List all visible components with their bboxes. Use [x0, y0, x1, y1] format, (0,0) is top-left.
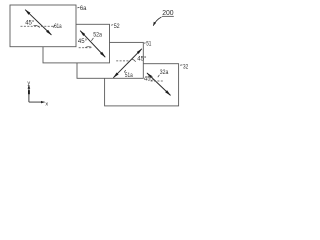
- coordinate axis: y axis: [28, 85, 30, 102]
- svg-text:45°: 45°: [78, 39, 88, 45]
- tick for label 52: [111, 24, 113, 27]
- angle arc in panel C: [132, 59, 136, 62]
- svg-text:51a: 51a: [125, 73, 133, 79]
- panel 51 (rectangle C): [77, 42, 143, 78]
- panel 32 (rear rectangle D): [105, 64, 179, 106]
- svg-text:52a: 52a: [93, 33, 102, 39]
- leader arrow from 200: [153, 17, 161, 26]
- tick for label 32: [180, 64, 182, 66]
- angle arc in panel A: [34, 25, 40, 27]
- svg-text:32: 32: [183, 64, 189, 70]
- dashed reference line in panel B: [79, 47, 92, 49]
- coordinate axis: x axis: [29, 101, 45, 103]
- leader tick for 61a: [53, 25, 54, 28]
- dashed reference line in panel D: [151, 80, 164, 82]
- polarization arrow in panel D: [147, 73, 171, 95]
- polarization arrow in panel C (pointing up-right): [113, 49, 141, 78]
- svg-text:61a: 61a: [54, 24, 62, 30]
- svg-text:y: y: [27, 80, 30, 86]
- angle arc in panel B: [85, 46, 91, 49]
- svg-text:45°: 45°: [144, 77, 154, 83]
- svg-text:45°: 45°: [25, 20, 35, 26]
- angle arc in panel D: [151, 80, 156, 81]
- thick dash (origin dot) on y axis: [28, 90, 30, 95]
- tick for label 51: [144, 42, 146, 44]
- svg-text:x: x: [45, 102, 48, 108]
- svg-text:6a: 6a: [80, 6, 87, 12]
- panel 6a (front rectangle A): [10, 5, 76, 47]
- leader tick for 51a: [124, 70, 125, 72]
- svg-text:52: 52: [114, 24, 121, 30]
- svg-text:32a: 32a: [160, 70, 169, 76]
- svg-text:51: 51: [146, 41, 152, 47]
- svg-text:45°: 45°: [137, 56, 147, 62]
- tick for label 6a: [77, 6, 79, 9]
- polarization arrow in panel B: [80, 31, 105, 57]
- leader tick for 32a: [158, 75, 160, 77]
- polarization arrow in panel A: [25, 10, 51, 35]
- dashed reference line in panel A: [21, 25, 54, 27]
- panel 52 (rectangle B): [43, 24, 110, 63]
- dashed reference line in panel C: [116, 60, 129, 62]
- svg-text:200: 200: [162, 8, 173, 17]
- leader tick for 52a: [91, 38, 93, 41]
